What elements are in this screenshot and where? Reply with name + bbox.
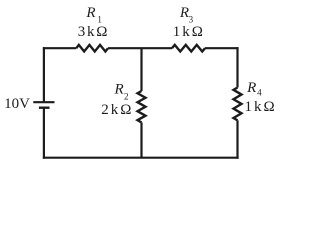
svg-text:1kΩ: 1kΩ — [173, 24, 205, 40]
wire top-left segment — [43, 47, 76, 49]
wire right upper — [236, 47, 238, 87]
wire left upper (to battery) — [43, 47, 45, 101]
wire left lower (battery to bottom) — [43, 108, 45, 159]
resistor R1 — [76, 45, 108, 52]
resistor R2 — [138, 91, 146, 122]
svg-text:R: R — [114, 82, 124, 98]
wire bottom — [43, 157, 239, 159]
svg-text:1kΩ: 1kΩ — [245, 99, 277, 115]
wire middle lower — [140, 122, 142, 157]
wire top-middle segment — [108, 47, 172, 49]
resistor R3 — [172, 45, 205, 52]
svg-text:10V: 10V — [4, 96, 30, 112]
svg-text:3kΩ: 3kΩ — [78, 24, 110, 40]
battery V1 short plate — [39, 106, 50, 108]
wire top-right segment — [205, 47, 239, 49]
svg-text:2kΩ: 2kΩ — [101, 102, 133, 118]
wire middle upper — [140, 48, 142, 91]
svg-text:R: R — [246, 80, 256, 96]
svg-text:R: R — [85, 5, 95, 21]
svg-text:4: 4 — [257, 88, 262, 98]
wire right lower — [236, 120, 238, 158]
svg-text:2: 2 — [124, 91, 129, 101]
resistor R4 — [234, 88, 242, 121]
svg-text:R: R — [179, 5, 189, 21]
battery V1 long plate — [33, 101, 54, 103]
